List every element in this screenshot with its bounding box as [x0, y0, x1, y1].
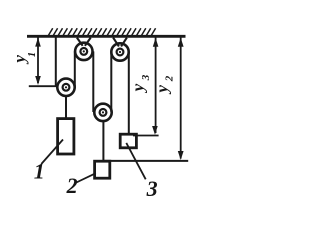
leader line of label 2 — [76, 173, 96, 182]
load 2 box — [95, 161, 110, 178]
dimension y3 bottom arrowhead — [152, 126, 158, 135]
svg-text:2: 2 — [66, 173, 78, 198]
load 1 box — [58, 119, 74, 154]
wire rope movable pulley A down to load 1 — [65, 96, 67, 120]
load 3 box — [120, 134, 136, 148]
dimension y2 baseline at load 2 top level — [104, 160, 189, 162]
svg-text:3: 3 — [140, 74, 152, 81]
svg-text:2: 2 — [163, 75, 175, 82]
dimension y1 bottom arrowhead — [35, 76, 41, 85]
wire rope movable pulley B down to load 2 — [102, 121, 104, 163]
wire rope movable pulley A right side up to fixed pulley U1 left — [74, 51, 76, 87]
ceiling — [27, 35, 186, 38]
dimension y2 line — [180, 38, 182, 159]
svg-text:1: 1 — [26, 52, 38, 58]
leader line of label 3 — [126, 143, 145, 179]
wire rope fixed pulley U1 right down to movable pulley B left — [92, 51, 94, 112]
dimension y1 top arrowhead — [35, 38, 41, 47]
dimension y2 top arrowhead — [178, 38, 184, 47]
fixed pulley U1 — [75, 43, 92, 60]
movable pulley B — [94, 104, 111, 121]
dimension y1 line — [37, 38, 39, 84]
bracket of fixed pulley U2 — [113, 38, 127, 47]
ceiling hatching — [49, 28, 156, 35]
wire rope fixed pulley U2 right down to load 3 — [128, 52, 130, 135]
dimension y2 bottom arrowhead — [178, 151, 184, 160]
dimension y1 baseline at pulley A axle level — [29, 85, 57, 87]
movable pulley A — [57, 79, 74, 96]
dimension y3 top arrowhead — [153, 38, 159, 47]
bracket of fixed pulley U1 — [77, 38, 91, 46]
dimension y3 line — [155, 38, 157, 134]
svg-text:3: 3 — [146, 176, 158, 201]
svg-text:y: y — [152, 85, 171, 95]
dimension y3 baseline at load 3 top level — [133, 135, 159, 137]
wire rope from ceiling to movable pulley A left side — [55, 38, 57, 88]
svg-text:y: y — [128, 83, 147, 93]
svg-text:1: 1 — [34, 159, 45, 184]
leader line of label 1 — [41, 140, 63, 165]
fixed pulley U2 — [111, 43, 128, 60]
wire rope movable pulley B right up to fixed pulley U2 left — [110, 52, 112, 112]
